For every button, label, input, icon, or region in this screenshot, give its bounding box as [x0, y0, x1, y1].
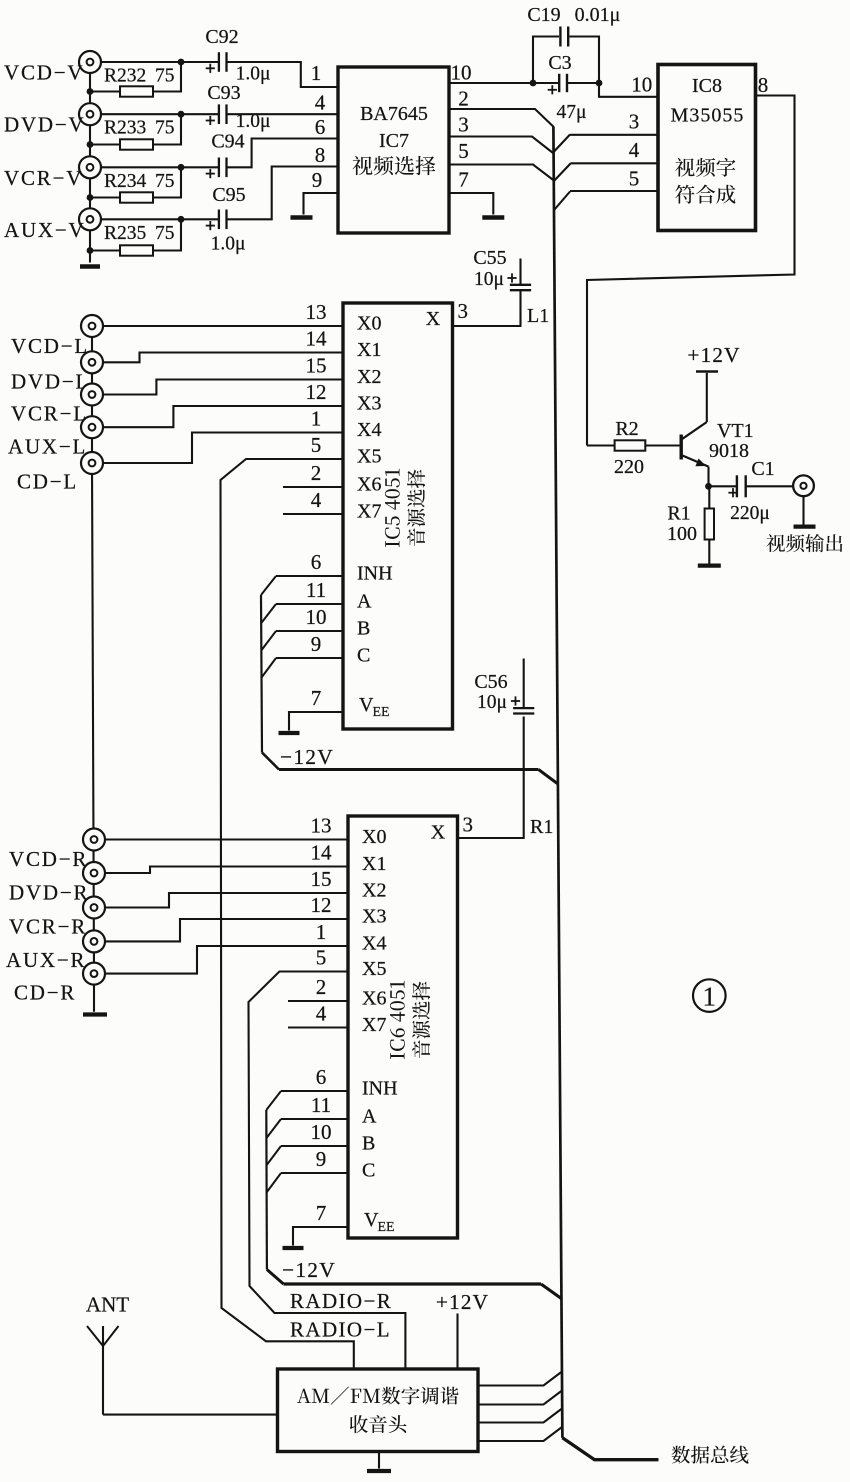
svg-text:−12V: −12V — [280, 745, 334, 769]
svg-text:R233: R233 — [104, 118, 146, 139]
capacitor C19 0.01u — [559, 27, 561, 47]
wire radio data line 3 — [478, 1409, 562, 1423]
node circled 1 marker — [693, 979, 726, 1012]
wire IC7 pin5 to bus — [449, 165, 554, 181]
svg-text:B: B — [357, 618, 370, 640]
wire IC7 pin7 to ground — [449, 193, 493, 215]
svg-text:2: 2 — [458, 87, 469, 111]
wire IC5 VEE to ground — [289, 712, 343, 731]
wire antenna to radio box — [103, 1414, 278, 1416]
svg-text:M35055: M35055 — [671, 105, 745, 127]
svg-text:X2: X2 — [357, 366, 381, 388]
resistor R2 220 — [615, 440, 646, 450]
node junction on shield chain row 2 — [87, 141, 94, 148]
svg-text:EE: EE — [373, 705, 390, 720]
wire IC5 X6 stub — [283, 486, 343, 488]
op-amp U IC8 M35055 box — [658, 65, 756, 231]
svg-text:7: 7 — [316, 1201, 327, 1225]
svg-text:9018: 9018 — [709, 440, 749, 462]
wire VCD-L to IC5 X0 — [103, 325, 343, 327]
transistor VT1 collector lead — [682, 422, 706, 439]
wire AUX-V signal — [101, 218, 219, 220]
wire VCD-V signal — [101, 61, 219, 63]
svg-text:ANT: ANT — [86, 1293, 129, 1317]
resistor R233 75 — [120, 139, 153, 149]
svg-text:RADIO−R: RADIO−R — [290, 1289, 392, 1313]
wire radio box to ground — [378, 1452, 380, 1469]
svg-text:R2: R2 — [615, 418, 638, 440]
svg-text:6: 6 — [316, 1065, 327, 1089]
ic IC5 4051 box — [343, 303, 453, 729]
wire IC6 B — [281, 1145, 348, 1147]
svg-text:2: 2 — [316, 975, 327, 999]
svg-text:X1: X1 — [362, 853, 386, 875]
svg-text:13: 13 — [306, 300, 327, 324]
wire IC5 X7 stub — [283, 513, 343, 515]
node signal junction DVD-V — [178, 111, 185, 118]
connector CD-L (BNC jack) — [81, 452, 103, 474]
svg-text:4: 4 — [629, 138, 640, 162]
wire IC6 X7 stub — [288, 1026, 348, 1028]
capacitor C93 1.0u — [218, 104, 220, 124]
label IC7 function (video select) — [352, 156, 435, 176]
svg-text:CD−L: CD−L — [17, 470, 78, 494]
antenna symbol — [102, 1326, 104, 1415]
svg-text:1: 1 — [311, 407, 322, 431]
wire output jack to ground — [802, 497, 804, 525]
label video output — [766, 534, 842, 552]
svg-text:IC8: IC8 — [692, 75, 722, 97]
svg-text:CD−R: CD−R — [14, 981, 76, 1005]
svg-text:B: B — [362, 1133, 375, 1155]
svg-text:10: 10 — [451, 61, 472, 85]
ground IC5 VEE — [279, 731, 300, 735]
label radio line1 AM/FM digital tuner — [297, 1387, 458, 1405]
wire emitter down — [707, 467, 709, 487]
wire CD-L to IC5 X4 — [103, 433, 343, 464]
svg-text:5: 5 — [629, 167, 640, 191]
svg-text:75: 75 — [155, 66, 175, 87]
wire C3 right — [567, 82, 599, 84]
svg-text:C: C — [362, 1160, 375, 1182]
wire C1 to output jack — [746, 485, 793, 487]
wire IC6 X5 / RADIO-R run — [249, 972, 406, 1370]
ground IC7 pin9 — [291, 215, 313, 220]
svg-text:X5: X5 — [362, 958, 386, 980]
svg-text:R1: R1 — [530, 816, 553, 838]
wire IC6 INH — [281, 1090, 348, 1092]
svg-text:13: 13 — [311, 814, 332, 838]
svg-text:C92: C92 — [205, 26, 238, 48]
wire VCR-L to IC5 X2 — [103, 380, 343, 395]
svg-text:100: 100 — [667, 523, 697, 545]
wire DVD-L to IC5 X1 — [103, 353, 343, 363]
wire C94 to IC7 pin6 — [227, 139, 339, 168]
wire C56 stub up — [523, 659, 525, 709]
svg-text:5: 5 — [311, 433, 322, 457]
capacitor C56 10u — [513, 707, 534, 709]
svg-text:12: 12 — [306, 380, 327, 404]
wire radio data line 1 — [478, 1372, 562, 1386]
svg-text:2: 2 — [311, 461, 322, 485]
wire bundle to -12V rail (IC6) — [267, 1270, 284, 1285]
svg-text:75: 75 — [155, 171, 175, 192]
wire IC8 pin4 — [571, 162, 658, 164]
svg-text:VCR−L: VCR−L — [11, 402, 88, 426]
ground R1 — [698, 563, 721, 567]
power +12V rail bar — [696, 370, 718, 373]
wire VCR-R to IC6 X2 — [105, 893, 348, 908]
wire C92 to IC7 pin1 — [227, 62, 339, 87]
node junction on shield chain row 4 — [87, 247, 94, 254]
svg-text:220μ: 220μ — [730, 503, 770, 524]
svg-text:EE: EE — [378, 1220, 395, 1235]
svg-text:VCD−R: VCD−R — [9, 847, 88, 871]
svg-text:9: 9 — [312, 168, 323, 192]
svg-text:+12V: +12V — [436, 1290, 489, 1314]
wire AUX-R to IC6 X3 — [105, 919, 348, 941]
label IC5 function rotated — [407, 469, 425, 546]
connector VCD-L (BNC jack) — [81, 315, 103, 337]
wire R1 to ground — [708, 540, 710, 564]
svg-text:0.01μ: 0.01μ — [575, 4, 621, 26]
capacitor C92 1.0u — [218, 52, 220, 72]
wire IC5 C — [276, 657, 343, 659]
connector VCR-R (BNC jack) — [83, 897, 105, 919]
capacitor C55 10u — [510, 284, 531, 286]
svg-text:8: 8 — [315, 143, 326, 167]
wire IC7 pin10 to C3 — [449, 82, 558, 84]
resistor R235 75 — [120, 245, 153, 255]
wire IC7 pin9 to ground — [304, 193, 339, 215]
label IC6 name rotated — [390, 981, 405, 1059]
wire IC6 A — [281, 1118, 348, 1120]
node junction C3 right — [596, 80, 603, 87]
wire CD-R to IC6 X4 — [105, 946, 348, 974]
svg-text:10μ: 10μ — [474, 269, 504, 290]
svg-text:4: 4 — [311, 488, 322, 512]
wire IC5 control bundle vertical — [261, 595, 262, 753]
svg-text:3: 3 — [629, 110, 640, 134]
svg-text:X1: X1 — [357, 339, 381, 361]
svg-text:DVD−V: DVD−V — [4, 113, 86, 137]
svg-text:R235: R235 — [104, 223, 146, 244]
connector VCR-V (BNC jack) — [79, 156, 101, 178]
connector CD-R (BNC jack) — [83, 963, 105, 985]
svg-text:3: 3 — [462, 813, 473, 837]
svg-text:6: 6 — [315, 115, 326, 139]
svg-text:1: 1 — [703, 982, 717, 1012]
resistor R1 100 — [705, 509, 714, 540]
svg-text:C94: C94 — [211, 131, 244, 153]
ground L/R input chain — [83, 1012, 107, 1016]
svg-text:3: 3 — [458, 113, 469, 137]
label data bus — [672, 1446, 749, 1464]
wire C19 parallel loop — [533, 37, 559, 84]
wire base R2 — [587, 444, 615, 446]
svg-text:47μ: 47μ — [557, 102, 587, 123]
svg-text:X5: X5 — [357, 446, 381, 468]
wire VCD-R to IC6 X0 — [105, 838, 348, 840]
connector AUX-R (BNC jack) — [83, 930, 105, 952]
wire VCR-V signal — [101, 166, 219, 168]
svg-text:X4: X4 — [362, 933, 386, 955]
connector video output (BNC) — [793, 475, 814, 496]
connector DVD-R (BNC jack) — [83, 862, 105, 884]
svg-text:X3: X3 — [362, 906, 386, 928]
svg-text:7: 7 — [311, 686, 322, 710]
svg-text:INH: INH — [357, 563, 393, 585]
ground V-input chain — [80, 264, 100, 269]
node junction on shield chain row 1 — [87, 88, 94, 95]
svg-text:+12V: +12V — [687, 343, 740, 367]
wire bus to IC8 pin3 diagonal — [554, 135, 570, 153]
capacitor C95 1.0u — [218, 210, 220, 230]
svg-text:C95: C95 — [212, 184, 245, 206]
svg-text:75: 75 — [155, 223, 175, 244]
svg-text:5: 5 — [316, 946, 327, 970]
svg-text:10μ: 10μ — [477, 692, 507, 713]
svg-text:X0: X0 — [362, 826, 386, 848]
wire IC6 X out to C56 — [458, 717, 524, 839]
svg-text:X3: X3 — [357, 393, 381, 415]
connector AUX-L (BNC jack) — [81, 416, 103, 438]
svg-text:12: 12 — [311, 893, 332, 917]
wire resistor tap R232 — [90, 90, 120, 92]
svg-text:VT1: VT1 — [717, 420, 754, 442]
connector VCD-R (BNC jack) — [83, 829, 105, 851]
svg-text:L1: L1 — [527, 305, 549, 327]
svg-text:C19: C19 — [527, 4, 560, 26]
connector AUX-V (BNC jack) — [79, 208, 101, 230]
svg-text:X6: X6 — [357, 474, 381, 496]
svg-text:7: 7 — [458, 168, 469, 192]
wire AUX-L to IC5 X3 — [103, 406, 343, 427]
svg-text:BA7645: BA7645 — [360, 103, 428, 125]
connector DVD-L (BNC jack) — [81, 351, 103, 373]
node signal junction VCD-V — [178, 59, 185, 66]
node signal junction VCR-V — [178, 164, 185, 171]
svg-text:14: 14 — [306, 327, 328, 351]
svg-text:1.0μ: 1.0μ — [236, 64, 271, 85]
power -12V rail (IC5) — [279, 768, 539, 771]
transistor VT1 base bar — [680, 435, 683, 460]
svg-text:1: 1 — [316, 920, 327, 944]
wire bundle to -12V rail (IC5) — [262, 753, 279, 770]
svg-text:C: C — [357, 645, 370, 667]
svg-text:VCR−R: VCR−R — [9, 915, 87, 939]
wire V-input shield chain — [89, 62, 91, 263]
ic radio tuner box — [278, 1369, 479, 1452]
node junction on shield chain row 3 — [87, 194, 94, 201]
wire +12V to radio box — [456, 1314, 458, 1370]
capacitor C3 47u — [558, 74, 560, 92]
node emitter junction — [705, 483, 712, 490]
svg-text:−12V: −12V — [282, 1258, 336, 1282]
svg-text:6: 6 — [311, 550, 322, 574]
node junction C3 left — [530, 80, 537, 87]
wire IC6 C — [281, 1172, 348, 1174]
wire IC8 pin3 — [570, 134, 658, 136]
svg-text:AUX−R: AUX−R — [6, 948, 86, 972]
label IC5 name rotated — [385, 469, 400, 547]
ground IC6 VEE — [283, 1246, 304, 1250]
wire L/R input shield chain — [92, 326, 94, 1012]
wire C95 to IC7 pin8 — [227, 167, 339, 220]
svg-text:75: 75 — [155, 118, 175, 139]
wire IC5 X5 / RADIO-L run — [221, 459, 354, 1369]
wire C3 to IC8 pin10 — [599, 83, 658, 97]
ground IC7 pin7 — [482, 215, 504, 220]
svg-text:X2: X2 — [362, 880, 386, 902]
wire IC5 X out to C55 — [453, 291, 521, 327]
svg-text:X6: X6 — [362, 988, 386, 1010]
svg-text:A: A — [362, 1106, 377, 1128]
svg-text:X: X — [431, 822, 446, 844]
svg-text:X7: X7 — [357, 501, 381, 523]
svg-text:14: 14 — [311, 841, 333, 865]
wire main bus vertical — [553, 127, 562, 1438]
svg-text:X: X — [426, 308, 441, 330]
svg-text:8: 8 — [758, 73, 769, 97]
svg-text:DVD−R: DVD−R — [9, 881, 89, 905]
svg-text:9: 9 — [311, 632, 322, 656]
svg-text:VCD−V: VCD−V — [4, 61, 84, 85]
wire emitter to C1 — [709, 485, 737, 487]
label IC8 function line2 (composite) — [675, 185, 735, 204]
svg-text:1: 1 — [311, 61, 322, 85]
svg-text:10: 10 — [306, 605, 327, 629]
wire IC7 pin3 to bus — [449, 137, 554, 154]
svg-text:9: 9 — [316, 1147, 327, 1171]
ground radio box — [367, 1469, 391, 1473]
svg-text:C3: C3 — [548, 52, 571, 74]
wire IC5 INH — [276, 575, 343, 577]
wire C93 to IC7 pin4 — [227, 113, 339, 115]
connector DVD-V (BNC jack) — [79, 103, 101, 125]
wire bus to IC8 pin5 diagonal — [554, 192, 570, 211]
svg-text:R234: R234 — [104, 171, 147, 192]
wire resistor tap R233 — [90, 143, 120, 145]
resistor R234 75 — [120, 192, 153, 202]
svg-text:RADIO−L: RADIO−L — [290, 1318, 391, 1342]
wire C55 stub up — [519, 259, 521, 285]
svg-text:AUX−V: AUX−V — [4, 218, 86, 242]
wire R2 to base — [645, 444, 680, 446]
wire radio data line 4 — [478, 1427, 562, 1441]
label IC6 function rotated — [412, 981, 430, 1058]
wire radio data line 2 — [478, 1391, 562, 1405]
label radio line2 tuner head — [350, 1415, 407, 1433]
svg-text:11: 11 — [306, 578, 326, 602]
svg-text:INH: INH — [362, 1078, 398, 1100]
ground output jack — [794, 524, 816, 528]
capacitor C94 1.0u — [218, 158, 220, 178]
svg-text:220: 220 — [614, 456, 644, 478]
wire IC6 control bundle vertical — [265, 1110, 268, 1270]
label IC8 function line1 (video char) — [675, 158, 735, 177]
wire emitter to R1 — [708, 486, 710, 508]
svg-text:VCR−V: VCR−V — [4, 166, 83, 190]
svg-text:3: 3 — [457, 299, 468, 323]
svg-text:10: 10 — [311, 1120, 332, 1144]
op-amp U IC7 BA7645 video selector box — [338, 67, 449, 233]
ic IC6 4051 box — [348, 816, 458, 1238]
wire +12V to VT1 collector — [706, 373, 708, 422]
svg-text:C1: C1 — [751, 458, 774, 480]
wire IC6 X6 stub — [288, 1000, 348, 1002]
svg-text:C55: C55 — [473, 247, 506, 269]
capacitor C1 220u — [736, 475, 738, 497]
svg-text:4: 4 — [315, 91, 326, 115]
svg-text:5: 5 — [458, 139, 469, 163]
connector VCD-V (BNC jack) — [79, 51, 101, 73]
svg-text:C56: C56 — [474, 671, 507, 693]
transistor VT1 emitter lead with arrow — [682, 456, 708, 467]
svg-text:1.0μ: 1.0μ — [211, 234, 246, 255]
svg-text:DVD−L: DVD−L — [11, 370, 90, 394]
svg-text:X4: X4 — [357, 419, 381, 441]
svg-text:R1: R1 — [667, 503, 690, 525]
svg-text:IC7: IC7 — [379, 130, 409, 152]
svg-text:15: 15 — [311, 867, 332, 891]
wire IC7 pin2 to bus — [449, 109, 554, 127]
wire IC5 A — [276, 603, 343, 605]
svg-text:X0: X0 — [357, 313, 381, 335]
wire DVD-V signal — [101, 113, 219, 115]
power -12V rail (IC6) — [284, 1282, 542, 1285]
wire IC8 pin5 — [570, 190, 658, 192]
resistor R232 75 — [120, 86, 153, 96]
node signal junction AUX-V — [178, 216, 185, 223]
svg-text:11: 11 — [311, 1093, 331, 1117]
svg-text:C93: C93 — [207, 82, 240, 104]
svg-text:R232: R232 — [104, 66, 146, 87]
connector VCR-L (BNC jack) — [81, 384, 103, 406]
wire IC5 B — [276, 630, 343, 632]
wire bus to IC8 pin4 diagonal — [554, 163, 571, 181]
svg-text:10: 10 — [631, 73, 652, 97]
svg-text:VCD−L: VCD−L — [11, 334, 89, 358]
wire resistor tap R235 — [90, 249, 120, 251]
svg-text:X7: X7 — [362, 1014, 386, 1036]
wire IC6 VEE to ground — [293, 1227, 348, 1246]
wire bus to databus bend — [562, 1438, 658, 1460]
wire IC8 pin8 feedback to VT1 base — [587, 96, 795, 446]
wire resistor tap R234 — [90, 196, 120, 198]
wire DVD-R to IC6 X1 — [105, 867, 348, 874]
svg-text:A: A — [357, 591, 372, 613]
svg-text:15: 15 — [306, 354, 327, 378]
svg-text:4: 4 — [316, 1002, 327, 1026]
svg-text:AUX−L: AUX−L — [8, 435, 87, 459]
